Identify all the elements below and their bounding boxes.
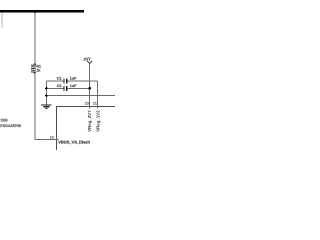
svg-text:1uF: 1uF	[70, 84, 77, 88]
svg-text:VReg_2V7: VReg_2V7	[87, 110, 92, 132]
svg-text:1uF: 1uF	[70, 77, 77, 81]
pin stub 21	[97, 106, 99, 108]
svg-text:21: 21	[93, 102, 97, 106]
capacitor C1	[63, 79, 64, 84]
wire ESD diode stub top-left	[1, 12, 3, 27]
svg-text:18: 18	[50, 136, 54, 140]
svg-text:ESDA25P35: ESDA25P35	[0, 124, 21, 128]
svg-text:2V7: 2V7	[84, 56, 92, 61]
svg-text:VBUS_VS_Disch: VBUS_VS_Disch	[58, 140, 90, 145]
wire bus to R1	[34, 12, 36, 63]
capacitor C2	[63, 86, 64, 91]
pin stub 23	[89, 106, 91, 108]
wire C2 row	[46, 87, 63, 89]
resistor R1	[31, 64, 36, 74]
node junction C2 / 2V7	[88, 87, 91, 90]
svg-text:23: 23	[85, 102, 89, 106]
svg-text:VReg_1V2: VReg_1V2	[95, 110, 100, 132]
svg-text:D50: D50	[1, 118, 8, 122]
node junction C1/C2 left	[45, 87, 47, 89]
wire left vertical to ground	[45, 81, 47, 105]
wire VBUS bus (thick)	[0, 10, 84, 13]
node junction left third row	[45, 95, 47, 97]
pin stub 18	[57, 139, 59, 141]
wire C1 row	[46, 80, 63, 82]
wire 2V7 down to pin 23 (line A)	[89, 64, 91, 107]
svg-text:C1: C1	[57, 77, 62, 81]
power port 2V7	[87, 61, 92, 64]
svg-text:C2: C2	[57, 84, 62, 88]
wire C1 to pin 21 (line B)	[97, 81, 99, 106]
node junction on bus	[33, 10, 36, 13]
IC U? box edge	[57, 107, 116, 151]
ground	[41, 104, 52, 106]
wire R1 down to pin 18	[35, 73, 57, 139]
wire third row to right edge	[46, 95, 115, 97]
